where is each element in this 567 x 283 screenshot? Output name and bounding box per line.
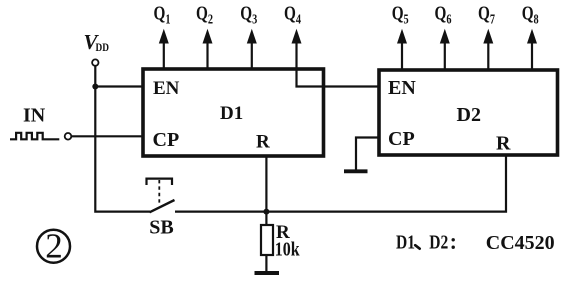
svg-text:EN: EN xyxy=(388,77,416,99)
svg-text:EN: EN xyxy=(153,78,180,99)
junction dot VDD-EN xyxy=(92,84,98,90)
IC D1 box xyxy=(143,69,324,156)
IN terminal circle xyxy=(65,133,72,140)
svg-text:SB: SB xyxy=(149,216,173,238)
pushbutton SB actuator (dashed) xyxy=(158,180,160,206)
output Q6 arrow xyxy=(441,30,450,70)
svg-text:2: 2 xyxy=(45,226,63,265)
wire Q4 to D2 EN pin xyxy=(297,69,380,87)
VDD terminal circle xyxy=(92,59,98,65)
wire SB to R net and up to D2 R pin xyxy=(175,155,506,212)
clock waveform symbol xyxy=(10,133,59,140)
svg-text:D2: D2 xyxy=(457,104,481,126)
svg-text:D1: D1 xyxy=(220,103,243,124)
figure number 2 in circle xyxy=(37,226,70,265)
output Q3 arrow xyxy=(248,30,257,69)
wire D1 R pin down to R net xyxy=(265,156,267,212)
ground bar at D2 CP xyxy=(344,169,368,173)
wire IN to D1 CP pin xyxy=(72,135,145,137)
output Q2 arrow xyxy=(203,30,212,69)
pushbutton SB bracket xyxy=(147,179,173,185)
wire VDD down to switch xyxy=(95,66,150,212)
output Q7 arrow xyxy=(484,30,493,70)
wire D2 CP to ground xyxy=(356,138,379,170)
svg-text:D1: D1 xyxy=(396,232,415,254)
svg-text:R: R xyxy=(496,133,511,155)
output Q1 arrow xyxy=(160,30,169,69)
IC D2 box xyxy=(379,70,558,155)
output Q5 arrow xyxy=(398,30,407,70)
svg-text:CP: CP xyxy=(388,128,415,150)
wire resistor to ground xyxy=(265,255,267,271)
wire junction to resistor xyxy=(265,212,267,225)
resistor R body xyxy=(261,225,273,255)
svg-text:CC4520: CC4520 xyxy=(486,232,555,254)
svg-text:R: R xyxy=(256,132,270,153)
output Q8 arrow xyxy=(528,30,537,70)
svg-text:IN: IN xyxy=(23,104,46,126)
junction dot R net xyxy=(263,209,269,215)
output Q4 arrow xyxy=(292,30,301,69)
ground bar below resistor xyxy=(255,271,280,275)
svg-text:D2: D2 xyxy=(429,232,448,254)
svg-text:10k: 10k xyxy=(275,239,300,261)
caption D1, D2: CC4520 xyxy=(396,232,555,254)
wire VDD to D1 EN pin xyxy=(95,85,144,87)
svg-text:CP: CP xyxy=(153,129,180,151)
pushbutton SB blade xyxy=(150,200,175,212)
